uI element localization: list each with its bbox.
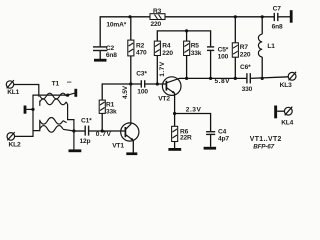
- wire C6 to KL3: [250, 77, 288, 79]
- wire R2 branch from rail: [130, 17, 132, 40]
- wire VT2 collector node to C6: [179, 77, 247, 79]
- svg-text:0.7V: 0.7V: [96, 131, 112, 138]
- svg-text:KL1: KL1: [7, 89, 19, 96]
- svg-text:KL2: KL2: [9, 142, 21, 149]
- svg-text:22R: 22R: [180, 135, 192, 142]
- wire R7 branch from rail: [234, 17, 236, 43]
- wire VT1 emitter to ground: [132, 140, 134, 152]
- svg-text:BFP-67: BFP-67: [253, 144, 274, 151]
- capacitor C7 (rail RF ground, 6n8): [272, 5, 283, 30]
- svg-text:12p: 12p: [80, 138, 91, 145]
- ground below R6: [168, 148, 181, 151]
- capacitor C3 (interstage coupling, 100): [136, 71, 148, 96]
- wire supply rail: [100, 17, 274, 47]
- svg-text:220: 220: [151, 21, 162, 28]
- wire L1 bottom lead: [261, 57, 263, 79]
- resistor R1 (VT1 feedback bias, 33k): [99, 100, 117, 116]
- resistor R6 (VT2 emitter, 22R): [172, 126, 192, 141]
- transformer T1 winding 1 (upper braid): [40, 93, 68, 106]
- svg-text:5.8V: 5.8V: [215, 78, 231, 85]
- resistor R4 (VT2 bias, 220): [154, 41, 173, 57]
- transformer T1 winding 3 (secondary braid): [40, 118, 67, 133]
- wire dot to right ground bar: [68, 93, 75, 95]
- ground below VT1 emitter: [126, 152, 137, 155]
- wire node A horizontal (VT1 collector to C3): [102, 84, 141, 100]
- svg-text:6n8: 6n8: [272, 24, 283, 31]
- svg-text:33k: 33k: [191, 50, 202, 57]
- svg-text:220: 220: [240, 52, 251, 59]
- capacitor C1 (input coupling, 12p): [80, 117, 93, 145]
- wire R5 top: [186, 31, 188, 41]
- ground below C2: [94, 59, 107, 62]
- svg-text:R3: R3: [153, 8, 162, 15]
- ground bar below T1 secondary: [69, 149, 82, 152]
- svg-text:C4: C4: [218, 128, 227, 135]
- wire R6 top lead: [174, 114, 176, 127]
- resistor R3 (series in rail, 220): [150, 8, 165, 28]
- wire L1 top lead: [261, 17, 263, 34]
- junction dot T1 top right / ground: [66, 94, 69, 97]
- wire KL1 to T1 primary: [14, 85, 39, 97]
- junction dot KL2/ground: [31, 108, 34, 111]
- svg-text:33k: 33k: [106, 109, 117, 116]
- svg-text:C6*: C6*: [240, 64, 251, 71]
- wire VT1 base node: [89, 130, 125, 132]
- resistor R5 (VT2 bias, 33k): [184, 41, 202, 57]
- ground below C4: [204, 147, 217, 150]
- inductor L1 (output feed choke): [258, 34, 262, 57]
- terminal KL4 (output ground): [274, 106, 293, 127]
- wire sub-bus R4/R5/C5: [157, 31, 210, 47]
- wire KL4 ground bar to terminal: [277, 110, 284, 112]
- svg-text:VT1: VT1: [112, 142, 124, 149]
- junction dot R4/base: [156, 82, 159, 85]
- capacitor C4 (emitter bypass, 4p7): [206, 128, 229, 142]
- svg-text:L1: L1: [267, 43, 275, 50]
- svg-text:100: 100: [218, 54, 229, 61]
- junction dot node A: [129, 82, 132, 85]
- svg-text:VT2: VT2: [158, 95, 170, 102]
- transistor VT1: [112, 84, 139, 149]
- junction dot emitter node: [173, 112, 176, 115]
- svg-text:C2: C2: [106, 45, 115, 52]
- junction dots on collector node: [185, 77, 188, 80]
- junction dot L1 rail: [261, 15, 264, 18]
- wire C2 bottom stub to ground: [99, 50, 101, 59]
- junction dot T1 secondary / C1 / ground: [72, 129, 75, 132]
- svg-text:330: 330: [242, 86, 253, 93]
- wire T1 winding 2 right end jog down: [66, 102, 74, 131]
- capacitor C5 (feedback, 100): [207, 47, 229, 61]
- svg-text:100: 100: [137, 88, 148, 95]
- terminal KL1 (input): [6, 80, 19, 96]
- svg-text:R2: R2: [136, 42, 145, 49]
- svg-text:R5: R5: [191, 43, 200, 50]
- wire R4 bottom to VT2 base node: [156, 56, 158, 85]
- svg-text:10mA*: 10mA*: [106, 21, 126, 28]
- capacitor C6 (output coupling, 330): [240, 64, 253, 93]
- wire emitter node to C4: [175, 114, 211, 132]
- wire R6 bottom to ground: [174, 142, 176, 149]
- junction dot sub-bus/R5: [185, 29, 188, 32]
- svg-text:VT1..VT2: VT1..VT2: [250, 136, 282, 143]
- ground bar right of C7: [290, 10, 293, 23]
- wire rail to ground bar after C7: [278, 16, 290, 18]
- terminal KL3 (output): [280, 72, 297, 89]
- svg-text:R1: R1: [106, 102, 115, 109]
- transistor VT2: [158, 77, 181, 103]
- resistor R7 (VT2 collector load, 220): [232, 43, 251, 59]
- svg-text:C1*: C1*: [81, 117, 92, 124]
- resistor R2 (VT1 collector load, 470): [128, 40, 147, 56]
- wire C4 bottom to ground: [210, 134, 212, 146]
- svg-text:R4: R4: [162, 43, 171, 50]
- svg-text:2.3V: 2.3V: [186, 107, 202, 114]
- svg-text:220: 220: [162, 50, 173, 57]
- wire KL2 up and over T1 to ground bar: [15, 95, 68, 136]
- svg-text:KL3: KL3: [280, 82, 292, 89]
- svg-text:C3*: C3*: [136, 71, 147, 78]
- wire R2 bottom to node A: [130, 56, 132, 84]
- wire C5 bottom to collector node: [210, 50, 212, 78]
- wire T1 secondary right lead to C1 node: [63, 129, 74, 131]
- svg-text:4p7: 4p7: [218, 135, 229, 142]
- terminal KL2 (input shield): [7, 132, 21, 149]
- stray mark near T1: [67, 81, 71, 83]
- junction dot VT1 base node: [101, 129, 104, 132]
- svg-text:T1: T1: [52, 81, 60, 88]
- wire R1 bottom to VT1 base node: [101, 113, 103, 131]
- wire VT2 emitter node: [174, 93, 176, 113]
- svg-text:1.7V: 1.7V: [159, 61, 166, 77]
- svg-text:470: 470: [136, 49, 147, 56]
- wire R7 bottom: [234, 57, 236, 78]
- svg-text:C7: C7: [273, 5, 282, 12]
- svg-text:C5*: C5*: [218, 47, 229, 54]
- wire dot down to ground: [73, 131, 75, 149]
- junction dot R7 rail: [234, 15, 237, 18]
- wire R5 bottom to collector node: [186, 56, 188, 79]
- wire T1 secondary to C1: [74, 130, 85, 132]
- svg-text:R7: R7: [240, 44, 249, 51]
- svg-text:6n8: 6n8: [106, 52, 117, 59]
- svg-text:4.5V: 4.5V: [122, 85, 129, 99]
- capacitor C2 (rail decoupling, 6n8): [93, 45, 117, 59]
- node A junction dot (rail/R2): [128, 15, 131, 18]
- wire C3 right to VT2 base: [145, 83, 166, 85]
- wire T1 secondary left lead: [33, 120, 40, 131]
- ground bar right of T1: [74, 89, 77, 97]
- svg-text:KL4: KL4: [281, 120, 293, 127]
- wire ground bar to KL2 line: [26, 108, 33, 110]
- ground bar left of T1: [24, 106, 27, 114]
